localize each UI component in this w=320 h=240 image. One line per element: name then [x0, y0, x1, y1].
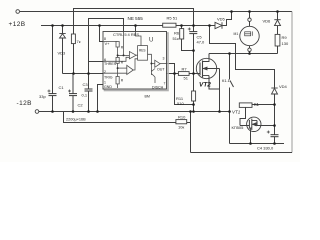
svg-text:VT1: VT1	[232, 110, 241, 115]
wire VD8 R9 column	[277, 12, 279, 20]
resistor R9	[275, 34, 280, 46]
capacitor C5	[188, 28, 198, 34]
555 ctrl pin internal	[123, 32, 125, 56]
wire -12 drop to R10 line	[64, 112, 177, 123]
svg-text:C2: C2	[78, 103, 84, 108]
555 comparator 2	[103, 72, 127, 74]
svg-text:2200µ×16В: 2200µ×16В	[66, 118, 86, 122]
wire VT2 substrate exit	[203, 68, 220, 70]
555 output buffer	[148, 54, 155, 63]
diode VD3	[59, 34, 65, 39]
555 comparator 1	[103, 57, 129, 61]
svg-text:51к: 51к	[173, 36, 179, 41]
svg-text:1: 1	[104, 81, 106, 85]
wire VT2 source column	[219, 69, 221, 112]
wire VD3 column	[62, 26, 64, 74]
svg-text:КП505: КП505	[232, 125, 245, 130]
svg-text:51: 51	[184, 76, 189, 81]
svg-text:C1: C1	[59, 85, 65, 90]
svg-text:R6: R6	[174, 31, 180, 36]
wire coil bottom to gate riser	[240, 108, 246, 126]
svg-text:510: 510	[177, 101, 184, 106]
wire VT1 drain	[257, 121, 275, 126]
wire bottom rail	[191, 152, 293, 154]
svg-text:C3: C3	[83, 82, 89, 87]
wire trig node	[63, 73, 104, 75]
wire R11 bottom	[193, 101, 195, 112]
svg-text:10к: 10к	[178, 125, 184, 130]
terminal -12	[35, 110, 39, 114]
svg-text:VD5: VD5	[217, 17, 226, 22]
svg-text:-12В: -12В	[17, 100, 32, 107]
svg-text:R7: R7	[182, 67, 188, 72]
svg-text:DISCH: DISCH	[152, 86, 164, 90]
wire R7 left	[167, 73, 179, 75]
svg-text:GND: GND	[104, 85, 112, 89]
svg-text:CTRL 5: CTRL 5	[113, 32, 127, 37]
svg-text:130: 130	[282, 41, 289, 46]
wire K line bottom	[230, 143, 285, 145]
svg-text:VD4: VD4	[279, 84, 288, 89]
svg-text:33р: 33р	[39, 94, 46, 99]
wire R10 right riser	[187, 112, 191, 123]
terminal +12	[16, 10, 20, 14]
op-amp U1 555 box	[103, 32, 167, 90]
wire R10 to bottom rail	[190, 123, 192, 153]
svg-text:2: 2	[104, 70, 106, 74]
svg-text:VT2: VT2	[199, 82, 211, 89]
wire K1.1 bus upper	[229, 54, 231, 80]
wire VT2 source jog	[209, 76, 220, 90]
svg-text:47,0: 47,0	[197, 40, 206, 45]
svg-text:К1: К1	[254, 102, 260, 107]
motor M1	[240, 18, 259, 52]
wire -12 rail	[39, 111, 230, 113]
svg-text:7: 7	[164, 82, 166, 86]
capacitor C2	[68, 90, 77, 96]
capacitor C1	[48, 90, 57, 96]
wire R8 bottom lead	[73, 44, 75, 74]
wire VT2 drain riser	[208, 54, 210, 59]
capacitor C3	[85, 89, 93, 91]
svg-text:RES: RES	[139, 49, 146, 53]
555 discharge transistor	[150, 64, 152, 72]
wire motor top terminal to circle	[249, 22, 251, 27]
resistor R6	[180, 29, 184, 39]
wire VD5 cathode staircase to line A	[223, 12, 232, 26]
svg-text:THRES: THRES	[104, 62, 117, 66]
wire VD8 to R9	[277, 26, 279, 35]
transistor VT2	[196, 58, 216, 79]
wire VT1 gate lead	[240, 125, 250, 127]
wire motor bottom lead	[249, 46, 251, 49]
wire +12 input line A	[20, 11, 292, 13]
wire motor bottom line	[209, 53, 278, 55]
resistor R7	[178, 72, 189, 76]
resistor R8	[71, 34, 75, 44]
wire R6 jog	[181, 26, 183, 29]
wire top line R8 feedback	[74, 9, 194, 35]
wire C3 column	[88, 74, 90, 90]
wire K1.1 bus lower	[229, 88, 231, 144]
diode VD5	[215, 22, 222, 28]
wire OUT pin exit	[167, 64, 175, 74]
wire R7 right to gate	[189, 73, 200, 75]
svg-text:NE 555: NE 555	[128, 16, 144, 21]
svg-text:7к: 7к	[77, 39, 81, 44]
relay coil K1	[239, 103, 252, 108]
555 flip flop	[136, 54, 138, 56]
transistor VT1	[247, 117, 261, 131]
svg-text:R9: R9	[282, 35, 288, 40]
wire C2 column	[72, 74, 74, 94]
svg-text:M1: M1	[234, 32, 239, 36]
wire C1 column	[52, 26, 54, 94]
wire K1.1 contact blade	[230, 81, 234, 88]
wire motor terminal to line	[249, 52, 251, 54]
svg-text:V+: V+	[105, 41, 111, 46]
svg-text:R5 51: R5 51	[167, 16, 178, 21]
svg-text:C4 330,0: C4 330,0	[257, 146, 274, 151]
wire C5 column top	[193, 26, 195, 32]
diode VD6 motor flyback	[274, 20, 280, 26]
wire coil right to VD4 column	[252, 104, 275, 106]
svg-text:OUT: OUT	[157, 68, 165, 72]
svg-text:R10: R10	[178, 115, 186, 120]
svg-text:TRIG: TRIG	[104, 75, 113, 79]
wire R6 bottom jog	[182, 39, 194, 51]
op-amp U1 555 box shadow	[105, 33, 169, 91]
wire VD4 to C4	[274, 94, 276, 135]
wire motor top lead	[249, 12, 251, 19]
wire +12 rail	[41, 25, 163, 27]
wire R9 to motor line	[277, 46, 279, 54]
diode VD4 relay flyback	[271, 88, 277, 94]
capacitor C4	[267, 131, 279, 137]
resistor R10	[176, 120, 187, 124]
wire VT1 source	[250, 131, 252, 144]
svg-text:4 RES: 4 RES	[128, 32, 140, 37]
svg-text:+12В: +12В	[9, 21, 26, 28]
wire R5 right / filtered node	[176, 25, 215, 27]
svg-text:К1.1: К1.1	[222, 78, 231, 83]
svg-text:8: 8	[104, 37, 106, 41]
svg-text:ВМ: ВМ	[145, 95, 150, 99]
wire OUT column down	[175, 74, 194, 105]
svg-text:3: 3	[163, 57, 165, 61]
wire C5 column bottom chain	[193, 34, 195, 92]
svg-text:VD3: VD3	[58, 51, 67, 56]
wire C3 bottom	[88, 91, 90, 112]
wire filtered staircase to VD4	[210, 26, 275, 88]
wire C4 bottom	[274, 137, 276, 144]
wire THRES pin	[89, 61, 104, 63]
wire right edge bus	[291, 12, 293, 153]
svg-text:U: U	[149, 38, 153, 44]
555 internal divider	[103, 32, 167, 89]
svg-text:0,1: 0,1	[82, 93, 88, 98]
svg-text:VD6: VD6	[263, 19, 272, 24]
wire C1 bottom	[52, 96, 54, 112]
wire GND pin	[98, 85, 104, 112]
wire C2 bottom	[72, 96, 74, 112]
wire V+ riser	[100, 26, 104, 42]
resistor R5	[163, 23, 176, 27]
wire CTRL bridge	[89, 19, 124, 74]
resistor R11	[192, 91, 196, 101]
wire RES pin riser	[135, 26, 137, 32]
